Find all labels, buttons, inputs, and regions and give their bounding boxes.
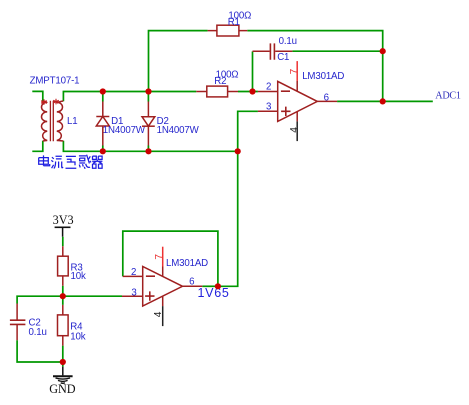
node D2 top [145,88,151,94]
svg-text:10k: 10k [71,271,86,282]
label 电流互感器 [39,155,103,169]
svg-text:6: 6 [189,277,194,288]
svg-text:C1: C1 [277,52,289,63]
resistor R1 [208,11,252,36]
wire U2 output [202,285,218,287]
resistor R4 [58,305,86,346]
op-amp U1 LM301AD [258,61,344,141]
ground GND [49,367,76,396]
op-amp U2 LM301AD [122,247,208,326]
svg-text:0.1u: 0.1u [29,327,47,338]
svg-text:3: 3 [266,101,271,112]
node divider mid [60,293,66,299]
node U2 output feedback [215,283,221,289]
node U1 output [380,98,386,104]
svg-text:1N4007W: 1N4007W [157,125,200,136]
svg-text:1V65: 1V65 [198,286,230,300]
wire C2 bottom to gnd row [17,340,63,362]
svg-text:7: 7 [289,68,300,74]
wire D2 stubs [147,92,149,152]
svg-text:2: 2 [131,267,136,278]
node D1 bottom [100,148,106,154]
svg-text:R1: R1 [228,17,240,28]
wire transformer right top to U1 pin2 row [63,92,258,102]
wire R3 column [62,237,64,297]
node C1 right [380,48,386,54]
node D2 bottom [145,148,151,154]
wire D1 stubs [102,92,104,152]
transformer L1 ZMPT107-1 [30,75,80,141]
wire transformer right bottom row [63,141,237,152]
svg-text:ADC1: ADC1 [435,91,461,102]
wire U1 pin3 vertical bus [218,111,258,286]
diode D1 1N4007W [96,102,146,146]
node D1 top [100,88,106,94]
svg-text:LM301AD: LM301AD [166,258,208,269]
wire U1 output to ADC1 [337,100,433,102]
wire U2 pin3 from divider [63,295,122,297]
power 3V3 [53,213,74,237]
wire transformer left top stub [32,91,43,101]
svg-text:2: 2 [266,82,271,93]
capacitor C2 [10,304,47,341]
capacitor C1 [253,36,297,63]
svg-text:7: 7 [154,254,165,260]
svg-text:6: 6 [324,92,329,103]
wire C1 left branch [252,51,254,91]
wire divider row to C2 [17,296,63,303]
resistor R2 [196,69,238,97]
svg-text:ZMPT107-1: ZMPT107-1 [30,75,80,86]
node bottom row to bus [235,148,241,154]
svg-text:1N4007W: 1N4007W [103,125,146,136]
resistor R3 [58,246,86,285]
wire C1 right to bus [292,50,382,52]
wire U2 feedback loop [123,231,218,286]
svg-text:0.1u: 0.1u [279,36,297,47]
svg-text:L1: L1 [67,116,77,127]
svg-text:3V3: 3V3 [53,213,74,227]
node U1 pin2 [249,88,255,94]
svg-text:3: 3 [131,288,136,299]
diode D2 1N4007W [142,102,200,146]
svg-text:4: 4 [153,311,164,317]
svg-text:4: 4 [289,127,300,133]
svg-text:GND: GND [49,382,76,396]
wire top feedback R1 net [149,31,383,102]
wire R4 column [62,296,64,367]
wire transformer left bottom stub [32,141,43,152]
svg-text:R2: R2 [214,76,226,87]
node gnd row [60,359,66,365]
svg-text:LM301AD: LM301AD [302,71,344,82]
svg-text:10k: 10k [70,332,85,343]
